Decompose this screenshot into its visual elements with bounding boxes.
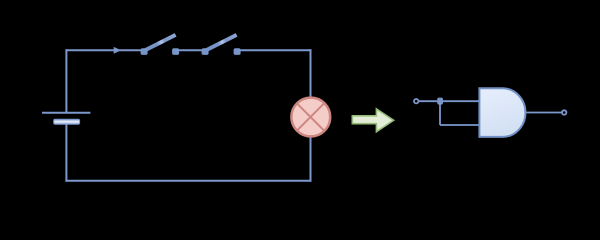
wire: input A (pin to gate) [419, 100, 480, 102]
node: input terminal pin [414, 99, 418, 103]
wire: top rail segment C (switch S2 to top-right corner) [237, 49, 312, 51]
block arrow (circuit implies gate) [352, 109, 393, 132]
wire: top rail segment B (switch S1 to switch S2) [176, 49, 206, 51]
node: output terminal pin [562, 110, 566, 114]
battery B1 [42, 113, 90, 125]
wire: bottom rail [65, 180, 311, 182]
wire: left rail lower (battery bottom plate to bottom-left corner) [65, 124, 67, 182]
wire: top rail segment A (left corner to switch S1) [65, 49, 144, 51]
and-gate U1 [479, 88, 525, 137]
switch S2 [202, 35, 241, 55]
wire: branch down from junction [439, 101, 441, 125]
current arrowhead [114, 47, 121, 54]
wire: input B (branch to gate lower input) [440, 124, 480, 126]
wire: right rail [310, 49, 312, 181]
lamp L1 [291, 98, 330, 137]
junction node [437, 98, 443, 105]
wire: left rail upper (top-left corner down to battery top plate) [65, 49, 67, 112]
wire: output (gate to output pin) [527, 112, 562, 114]
switch S1 [141, 35, 180, 55]
